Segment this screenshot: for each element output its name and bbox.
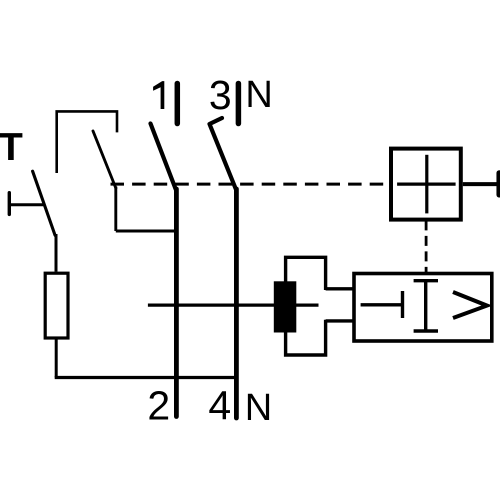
- relay input bar vertical: [401, 291, 404, 318]
- current transformer core: [274, 281, 297, 332]
- svg-text:N: N: [245, 74, 272, 116]
- dashed vertical link: [425, 220, 428, 273]
- wire secondary tab top: [326, 287, 354, 290]
- wire actuator: [9, 203, 44, 206]
- linkage blade: [93, 131, 116, 188]
- terminal 3N: [236, 84, 242, 124]
- relay I bottom cap: [414, 329, 438, 332]
- label 1: [153, 81, 164, 109]
- relay input bar horizontal: [361, 303, 403, 306]
- svg-text:2: 2: [147, 383, 170, 429]
- wire resistor down: [55, 338, 58, 378]
- terminal right: [496, 173, 500, 195]
- relay box: [354, 274, 492, 342]
- primary wire through CT: [148, 304, 319, 307]
- resistor R: [45, 273, 68, 338]
- mechanism bracket: [57, 111, 117, 173]
- trip coil cross horizontal: [397, 183, 456, 186]
- wire pole N vertical: [234, 189, 239, 418]
- switch blade pole 1: [151, 124, 177, 191]
- wire blade to resistor: [55, 234, 58, 272]
- wire coil to right terminal: [463, 182, 497, 186]
- svg-text:N: N: [245, 387, 272, 429]
- wire linkage vertical: [114, 187, 117, 232]
- wire bottom horizontal to N: [55, 376, 237, 379]
- relay I top cap: [414, 279, 438, 282]
- relay greater-than: [453, 292, 487, 318]
- trip coil cross vertical: [425, 155, 428, 214]
- dashed linkage line: [111, 183, 392, 186]
- wire linkage horizontal: [116, 230, 177, 233]
- secondary winding: [286, 257, 326, 355]
- svg-text:4: 4: [208, 383, 231, 429]
- terminal 1: [175, 84, 181, 124]
- wire secondary tab bottom: [326, 319, 354, 322]
- switch blade pole N: [210, 118, 237, 191]
- relay I vertical: [424, 281, 427, 331]
- terminal test button left: [8, 193, 11, 215]
- trip coil box: [391, 149, 461, 220]
- wire pole 1 vertical: [174, 189, 179, 417]
- switch blade test button: [33, 171, 56, 235]
- svg-text:3: 3: [209, 72, 232, 118]
- svg-text:T: T: [0, 126, 23, 169]
